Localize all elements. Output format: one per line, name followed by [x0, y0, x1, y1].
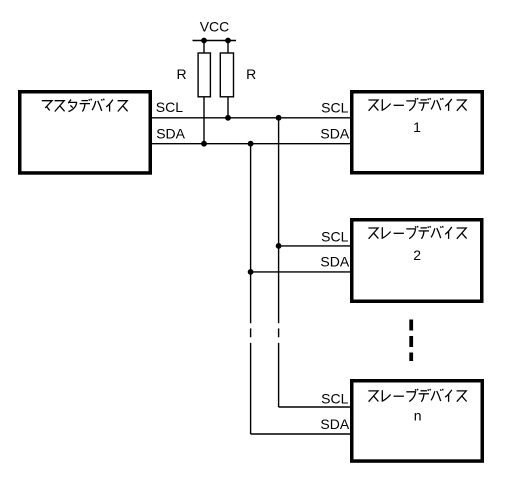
label master device (katakana)	[42, 99, 128, 112]
label slave device (katakana) slave n	[368, 389, 466, 402]
wire SDA branch to slave n	[251, 433, 350, 435]
svg-text:SCL: SCL	[321, 99, 348, 115]
svg-text:VCC: VCC	[200, 19, 230, 35]
wire SCL vertical drop lower segment	[278, 343, 280, 407]
wire SCL vertical drop dash segment	[278, 328, 280, 337]
svg-text:n: n	[414, 408, 422, 424]
svg-text:2: 2	[413, 247, 421, 263]
svg-text:SDA: SDA	[320, 254, 349, 270]
wire stub VCC to R1	[203, 41, 205, 54]
svg-text:SDA: SDA	[156, 125, 185, 141]
wire R1 leg down to SDA bus	[203, 97, 205, 144]
junction dot slave2 SDA	[248, 269, 254, 275]
svg-text:SCL: SCL	[321, 390, 348, 406]
junction dot R2 on SCL bus	[225, 115, 231, 121]
junction dot slave2 SCL	[276, 243, 282, 249]
wire SCL branch to slave2	[279, 245, 350, 247]
wire stub VCC to R2	[227, 41, 229, 54]
svg-text:SDA: SDA	[320, 416, 349, 432]
label slave device (katakana) slave1	[368, 98, 466, 111]
slave device 1 box	[352, 92, 483, 173]
svg-text:R: R	[176, 66, 186, 82]
wire VCC rail	[193, 40, 237, 42]
svg-text:1: 1	[413, 119, 421, 135]
wire R2 leg down to SCL bus	[227, 97, 229, 118]
ellipsis dashed line between slave2 and slave n	[409, 320, 413, 362]
wire SCL vertical drop upper segment	[278, 118, 280, 323]
junction dot on VCC rail left	[201, 38, 207, 44]
wire SCL bus master to slave1	[152, 117, 350, 119]
slave device n box	[352, 381, 483, 461]
svg-text:SCL: SCL	[156, 99, 183, 115]
junction dot SDA drop	[248, 141, 254, 147]
svg-text:SDA: SDA	[320, 126, 349, 142]
svg-text:SCL: SCL	[321, 229, 348, 245]
wire SDA vertical drop dash segment	[250, 328, 252, 337]
junction dot on VCC rail right	[225, 38, 231, 44]
wire SDA branch to slave2	[251, 271, 350, 273]
junction dot R1 on SDA bus	[201, 141, 207, 147]
slave device 2 box	[352, 220, 482, 302]
wire SDA vertical drop upper segment	[250, 144, 252, 324]
resistor R2	[220, 53, 233, 97]
master device box	[20, 92, 151, 173]
wire SDA vertical drop lower segment	[250, 343, 252, 434]
svg-text:R: R	[246, 66, 256, 82]
junction dot SCL drop	[276, 115, 282, 121]
wire SDA bus master to slave1	[152, 143, 350, 145]
resistor R1	[198, 53, 210, 97]
label slave device (katakana) slave2	[368, 226, 466, 239]
wire SCL branch to slave n	[279, 406, 350, 408]
